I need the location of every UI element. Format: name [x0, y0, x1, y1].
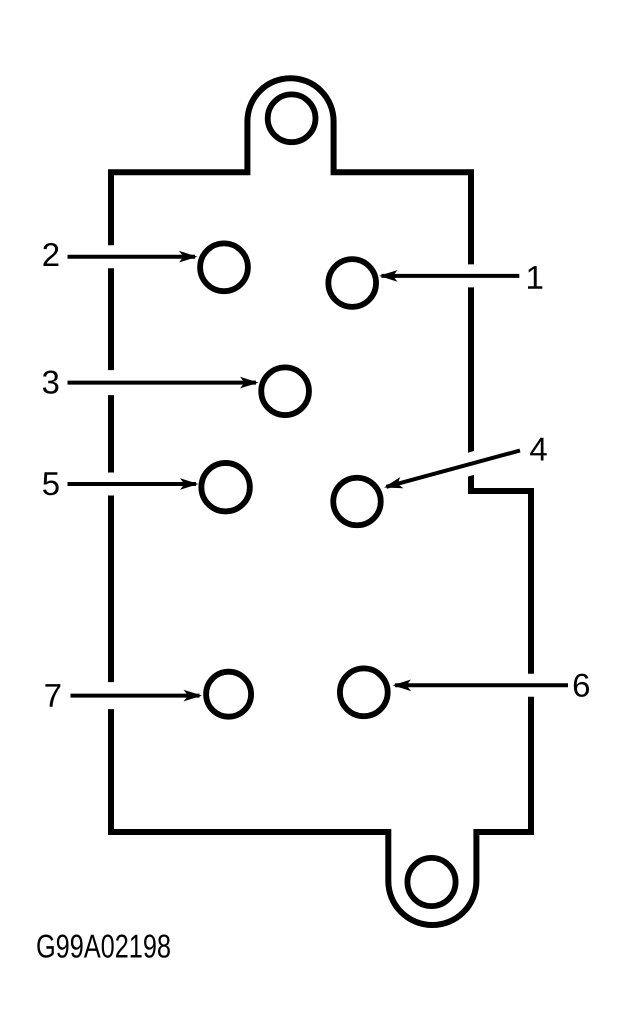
wire gap casing arrow 1 [386, 264, 519, 287]
pin 4 [333, 478, 381, 526]
arrow leader 5 [68, 478, 199, 490]
pin 3 [261, 367, 309, 415]
arrow leader 3 [68, 377, 259, 389]
wire gap casing arrow 2 [64, 245, 192, 268]
wire gap casing arrow 5 [64, 473, 192, 496]
wire gap casing arrow 7 [68, 682, 196, 709]
wire gap casing arrow 3 [64, 370, 252, 395]
label 6 [574, 674, 589, 697]
label 2 [43, 243, 58, 266]
pin 7 [206, 672, 251, 717]
arrow leader 7 [71, 690, 203, 702]
bottom mounting hole [407, 858, 455, 906]
arrow leader 2 [68, 251, 198, 263]
label 5 [43, 472, 59, 495]
arrow leader 4 [384, 451, 520, 489]
wire gap casing arrow 4 [390, 451, 518, 486]
arrow leader 6 [393, 680, 569, 692]
label 1 [528, 266, 542, 289]
figure id G99A02198 [37, 935, 170, 958]
wire gap casing arrow 6 [399, 674, 566, 697]
arrow leader 1 [379, 270, 519, 282]
pin 2 [200, 243, 248, 291]
pin 5 [201, 463, 250, 512]
label 3 [43, 371, 59, 394]
pin 6 [340, 668, 388, 716]
label 4 [530, 438, 547, 461]
connector body outline [111, 78, 531, 925]
top mounting hole [268, 94, 316, 142]
label 7 [45, 684, 60, 707]
pin 1 [328, 259, 376, 307]
